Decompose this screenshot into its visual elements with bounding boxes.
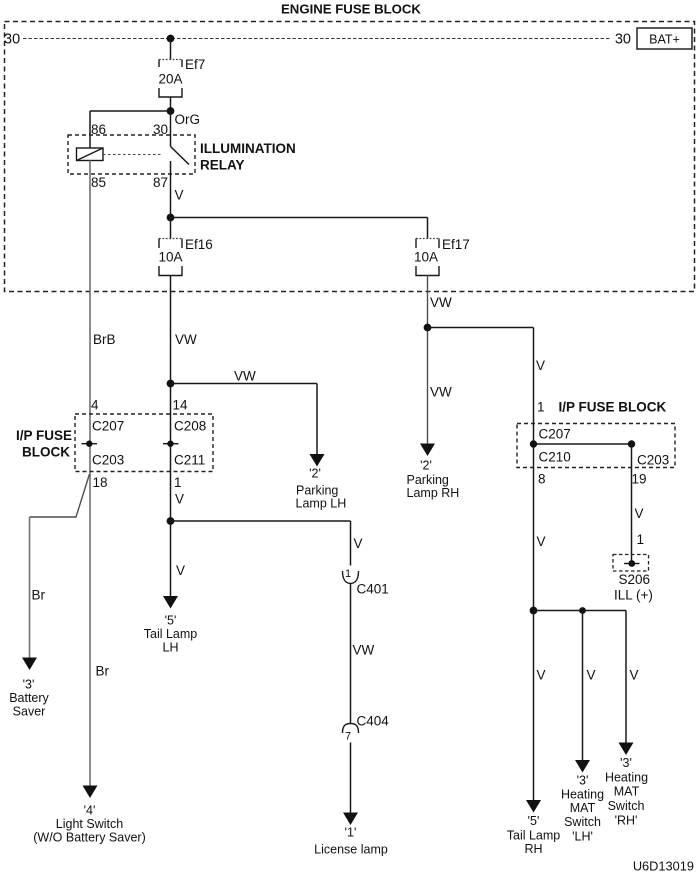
svg-text:'RH': 'RH' <box>615 814 638 828</box>
svg-text:VW: VW <box>430 295 452 310</box>
svg-text:'4': '4' <box>84 804 96 818</box>
svg-text:VW: VW <box>175 332 197 347</box>
svg-text:MAT: MAT <box>614 785 640 799</box>
svg-text:10A: 10A <box>158 250 182 265</box>
svg-text:Ef16: Ef16 <box>185 237 213 252</box>
svg-text:1: 1 <box>345 568 351 580</box>
svg-text:U6D13019: U6D13019 <box>633 859 694 874</box>
svg-text:87: 87 <box>153 175 168 190</box>
svg-text:License lamp: License lamp <box>314 843 388 857</box>
svg-text:C207: C207 <box>92 419 124 434</box>
svg-text:V: V <box>536 358 545 373</box>
svg-text:8: 8 <box>538 472 546 487</box>
svg-text:VW: VW <box>353 643 375 658</box>
svg-text:Parking: Parking <box>407 473 449 487</box>
svg-text:C401: C401 <box>357 582 389 597</box>
svg-text:20A: 20A <box>158 72 182 87</box>
svg-text:V: V <box>176 563 185 578</box>
svg-text:V: V <box>537 668 546 683</box>
svg-text:'3': '3' <box>620 756 632 770</box>
svg-text:Switch: Switch <box>564 815 601 829</box>
svg-text:Lamp LH: Lamp LH <box>296 497 347 511</box>
svg-text:V: V <box>587 668 596 683</box>
svg-text:VW: VW <box>234 369 256 384</box>
svg-text:MAT: MAT <box>570 801 596 815</box>
svg-text:V: V <box>175 492 184 507</box>
svg-text:30: 30 <box>615 32 631 48</box>
svg-text:C208: C208 <box>174 419 206 434</box>
svg-text:30: 30 <box>4 32 20 48</box>
svg-text:'5': '5' <box>165 614 177 628</box>
svg-text:Heating: Heating <box>561 788 604 802</box>
svg-text:'5': '5' <box>528 814 540 828</box>
svg-text:10A: 10A <box>414 250 438 265</box>
svg-text:C210: C210 <box>539 450 571 465</box>
svg-text:RH: RH <box>524 842 542 856</box>
svg-text:LH: LH <box>163 641 179 655</box>
svg-text:ILLUMINATION: ILLUMINATION <box>200 141 296 156</box>
svg-text:Lamp RH: Lamp RH <box>407 486 460 500</box>
svg-text:ENGINE FUSE BLOCK: ENGINE FUSE BLOCK <box>281 2 421 17</box>
svg-text:BrB: BrB <box>93 332 116 347</box>
svg-text:Tail Lamp: Tail Lamp <box>144 627 198 641</box>
svg-text:Saver: Saver <box>13 705 46 719</box>
svg-text:V: V <box>537 534 546 549</box>
svg-text:S206: S206 <box>619 572 651 587</box>
svg-text:C203: C203 <box>637 453 669 468</box>
svg-text:VW: VW <box>430 385 452 400</box>
svg-text:OrG: OrG <box>175 112 201 127</box>
svg-text:'LH': 'LH' <box>572 830 593 844</box>
svg-text:Battery: Battery <box>9 691 49 705</box>
svg-text:C203: C203 <box>92 453 124 468</box>
svg-text:C404: C404 <box>357 714 390 729</box>
svg-text:ILL (+): ILL (+) <box>614 588 653 603</box>
svg-text:4: 4 <box>91 398 99 413</box>
svg-text:'1': '1' <box>345 826 357 840</box>
svg-text:I/P FUSE BLOCK: I/P FUSE BLOCK <box>559 400 667 415</box>
svg-text:Heating: Heating <box>605 771 648 785</box>
svg-text:Ef17: Ef17 <box>442 237 470 252</box>
svg-text:V: V <box>354 536 363 551</box>
svg-text:I/P FUSE: I/P FUSE <box>16 428 72 443</box>
svg-text:Ef7: Ef7 <box>185 57 205 72</box>
svg-text:C207: C207 <box>539 427 571 442</box>
svg-text:1: 1 <box>537 400 545 415</box>
svg-text:BAT+: BAT+ <box>649 33 680 47</box>
svg-text:V: V <box>630 668 639 683</box>
svg-text:RELAY: RELAY <box>200 158 245 173</box>
svg-text:Parking: Parking <box>296 484 338 498</box>
svg-text:'2': '2' <box>309 467 321 481</box>
svg-text:C211: C211 <box>174 453 205 468</box>
svg-text:'3': '3' <box>577 774 589 788</box>
svg-text:Br: Br <box>96 664 110 679</box>
svg-text:Tail Lamp: Tail Lamp <box>507 829 561 843</box>
svg-text:(W/O Battery Saver): (W/O Battery Saver) <box>33 831 146 845</box>
svg-text:14: 14 <box>173 398 189 413</box>
svg-text:19: 19 <box>632 472 647 487</box>
svg-text:'2': '2' <box>420 459 432 473</box>
svg-text:7: 7 <box>345 731 351 743</box>
svg-text:Switch: Switch <box>608 799 645 813</box>
svg-text:V: V <box>175 188 184 203</box>
svg-text:Light Switch: Light Switch <box>56 817 123 831</box>
svg-text:1: 1 <box>174 475 182 490</box>
svg-text:85: 85 <box>91 175 106 190</box>
svg-text:'3': '3' <box>23 678 35 692</box>
svg-text:BLOCK: BLOCK <box>22 445 70 460</box>
svg-text:Br: Br <box>32 588 46 603</box>
svg-text:V: V <box>635 506 644 521</box>
svg-text:18: 18 <box>93 475 108 490</box>
svg-text:1: 1 <box>637 532 645 547</box>
